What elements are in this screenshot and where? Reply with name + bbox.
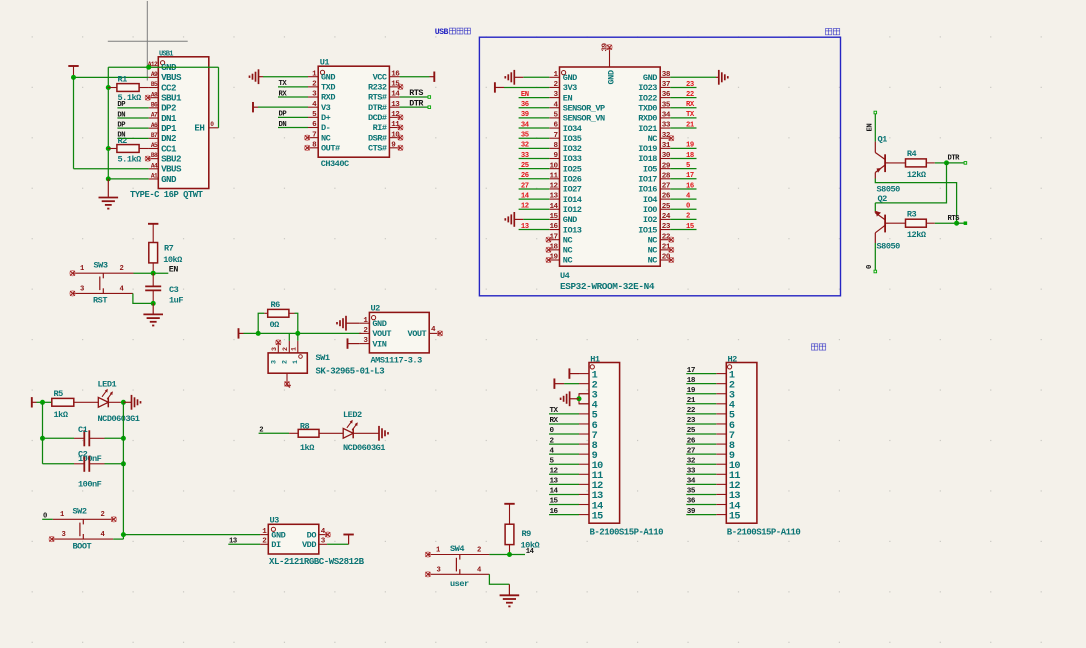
svg-text:22: 22 [687,407,696,415]
U4 pin 36 IO22 [638,91,671,103]
U4 pin 30 IO18 [638,152,671,164]
unconnected SW4 pin3 [425,572,430,577]
svg-text:DTR: DTR [948,155,961,163]
svg-text:23: 23 [662,223,671,231]
unconnected U1 pin8 [305,145,310,150]
svg-text:5.1kΩ: 5.1kΩ [118,154,142,164]
junction LED1 right [121,400,126,405]
svg-text:RST: RST [93,295,107,305]
svg-text:DP: DP [117,101,126,109]
junction R2 left [106,146,111,151]
wire GND left vertical [107,67,109,179]
svg-text:DTR#: DTR# [368,103,387,113]
svg-text:GND: GND [563,215,577,225]
svg-text:16: 16 [391,70,400,78]
resistor R5 1k [52,389,83,420]
wire VBUS-A9 [74,76,149,78]
wire/label 26 at H2 pin 8 [686,437,716,445]
svg-text:VIN: VIN [372,339,386,349]
junction C1 right [121,436,126,441]
wire/label 14 [510,548,535,556]
svg-text:USB1: USB1 [159,50,173,58]
unconnected SW2 pin2 [111,517,116,522]
svg-text:13: 13 [549,193,558,201]
svg-text:3: 3 [271,360,278,364]
wire DTR to Q2 emitter [875,163,946,203]
power 3V3 at U1 pin4 [253,102,308,112]
unconnected U1 pin 11 [398,125,403,130]
junction R6 right / SW1 pin1 [295,331,300,336]
H2 pin 13 [716,491,740,502]
svg-text:14: 14 [550,488,559,496]
resistor R3 [889,210,935,241]
U4 pin 15 GND [549,213,577,225]
cursor crosshair [108,1,188,81]
U4 pin 23 IO15 [638,223,671,235]
svg-text:31: 31 [662,142,671,150]
svg-text:GND: GND [321,72,335,82]
svg-text:DP: DP [117,121,126,129]
U4 pin 12 IO27 [549,183,581,195]
svg-text:15: 15 [592,511,604,522]
USB1 pin A8 SBU1 [149,91,182,103]
svg-text:DO: DO [307,530,317,540]
junction VBUS [71,75,76,80]
svg-text:22: 22 [686,91,694,99]
USB1 pin EH [194,121,218,134]
wire/label RX at U4 pin 35 [670,101,696,109]
svg-text:21: 21 [687,397,696,405]
U4 pin 39 GND top [601,42,616,84]
svg-text:RX: RX [550,417,559,425]
svg-text:26: 26 [687,437,696,445]
unconnected U1 pin 12 [398,115,403,120]
connector H2 body [726,354,757,523]
svg-text:GND: GND [271,530,285,540]
switch SW3 [73,261,134,306]
svg-text:IO15: IO15 [638,225,657,235]
svg-text:DSR#: DSR# [368,133,387,143]
svg-text:SENSOR_VP: SENSOR_VP [563,103,605,113]
svg-text:IO17: IO17 [638,175,657,185]
svg-text:SW1: SW1 [316,353,330,363]
resistor R4 [889,149,935,180]
ground symbol U4 pin38 [670,70,728,85]
svg-text:26: 26 [662,193,671,201]
svg-text:B5: B5 [151,81,158,88]
USB1 pin A1 GND [149,173,177,185]
U4 pin 10 IO25 [549,162,581,174]
U1 value CH340C [321,159,349,169]
svg-text:1kΩ: 1kΩ [300,443,314,453]
svg-text:H1: H1 [590,354,600,364]
wire/label DN [278,121,308,129]
svg-text:DP: DP [279,111,288,119]
svg-text:D-: D- [321,123,330,133]
svg-text:32: 32 [687,457,696,465]
svg-text:15: 15 [686,223,694,231]
svg-text:VDD: VDD [302,540,316,550]
wire/label DP row 6 [117,121,148,129]
svg-text:27: 27 [687,447,696,455]
wire/label TX [278,80,308,88]
U4 pin 3 EN [549,91,572,103]
svg-text:NCD0603G1: NCD0603G1 [343,443,385,453]
svg-text:DI: DI [271,540,281,550]
wire SW3 pin4 to C3 [133,293,153,303]
svg-text:CTS#: CTS# [368,144,387,154]
H1 pin 3 [579,391,598,402]
U3 pin4 DO [307,528,327,541]
wire/label 22 at H2 pin 5 [686,407,716,415]
svg-text:S8050: S8050 [877,242,901,252]
svg-text:SENSOR_VN: SENSOR_VN [563,114,605,124]
H2 pin 11 [716,471,740,482]
wire/label 13 at U4 pin 16 [519,223,550,231]
wire GND right vertical to EH [218,67,220,128]
svg-text:34: 34 [687,478,696,486]
svg-text:EH: EH [194,123,204,134]
unconnected U4 pin 20 [669,257,674,262]
svg-text:RI#: RI# [373,123,387,133]
wire/label 36 at U4 pin 4 [519,101,550,109]
svg-text:0Ω: 0Ω [270,320,280,330]
svg-text:IO2: IO2 [643,215,657,225]
power bar LED1 rail [32,397,37,407]
wire/label 16 at U4 pin 27 [670,182,696,190]
svg-text:S8050: S8050 [877,185,901,195]
svg-text:DTR: DTR [409,98,424,108]
svg-text:VOUT: VOUT [408,329,427,339]
U1 pin 8 OUT# [308,141,340,153]
svg-text:34: 34 [521,121,530,129]
svg-text:27: 27 [662,183,671,191]
U4 pin 35 TXD0 [638,101,671,113]
power bar input [239,328,244,338]
svg-text:3: 3 [437,566,441,574]
U2 pin 4 VOUT right [408,326,440,339]
svg-text:19: 19 [686,142,694,150]
U4 pin 13 IO14 [549,193,581,205]
ground symbol USB1 [99,179,119,209]
connector USB1 body [158,50,209,188]
svg-text:IO4: IO4 [643,195,657,205]
wire/label 35 at U4 pin 7 [519,132,550,140]
wire GND top [108,66,218,68]
svg-text:10kΩ: 10kΩ [163,255,182,265]
wire/label 27 at H2 pin 9 [686,447,716,455]
U1 pin 16 VCC [373,70,401,82]
svg-text:GND: GND [372,319,386,329]
svg-text:12: 12 [549,183,558,191]
unconnected SW4 pin1 [425,552,430,557]
power VCC at U1 pin16 [400,72,435,82]
svg-text:SW3: SW3 [94,261,108,271]
svg-text:38: 38 [662,71,671,79]
ground symbol LED1 [123,395,140,410]
wire C2 to right rail [105,463,124,465]
svg-text:0: 0 [43,513,47,521]
svg-text:TXD0: TXD0 [638,103,657,113]
wire/label RX [278,90,308,98]
wire/label 5 at U4 pin 29 [670,162,696,170]
wire BOOT to U3 [123,534,260,536]
svg-text:A7: A7 [151,112,158,119]
H2 pin 10 [716,461,740,472]
svg-text:21: 21 [686,121,695,129]
wire/label 27 at U4 pin 12 [519,182,550,190]
svg-text:NC: NC [563,246,573,256]
H2 pin 14 [716,501,740,512]
H1 pin 15 [579,511,603,522]
wire/label 21 at H2 pin 4 [686,397,716,405]
svg-text:14: 14 [549,203,558,211]
H2 pin 5 [716,411,735,422]
U4 pin 2 3V3 [549,81,577,93]
wire/label 26 at U4 pin 11 [519,172,550,180]
junction BOOT net [121,532,126,537]
U4 pin 8 IO32 [549,142,581,154]
svg-text:13: 13 [550,478,559,486]
svg-text:2: 2 [101,511,105,519]
svg-text:U2: U2 [371,304,381,314]
svg-text:C1: C1 [78,425,88,435]
group box main-control [479,37,840,296]
H2 pin 15 [716,511,740,522]
U1 pin 10 DSR# [368,131,400,143]
capacitor C2 100nF [74,450,105,490]
transistor Q1 S8050 [875,135,900,195]
svg-text:14: 14 [391,91,400,99]
U4 pin 27 IO16 [638,183,671,195]
junction EN-R7 [151,271,156,276]
wire left rail vertical [42,402,44,464]
svg-text:H2: H2 [728,354,738,364]
svg-text:27: 27 [521,182,529,190]
ground symbol U1 pin1 [250,69,309,84]
svg-text:17: 17 [686,172,694,180]
H2 pin 1 [716,370,735,381]
wire/label 19 at U4 pin 31 [670,142,696,150]
svg-text:15: 15 [729,511,741,522]
svg-text:23: 23 [687,417,696,425]
U4 pin 5 SENSOR_VN [549,112,605,124]
IC U3 WS2812B body [268,516,364,568]
U4 pin 37 IO23 [638,81,671,93]
svg-text:37: 37 [662,81,671,89]
U4 pin 19 NC [549,254,572,266]
IC U1 CH340C body [318,57,389,157]
svg-text:25: 25 [662,203,671,211]
transistor Q2 S8050 [875,194,900,252]
wire/label 4 at H1 pin 9 [549,447,579,455]
wire/label 2 at H1 pin 8 [549,437,579,445]
text peripherals (chinese) [812,344,826,351]
unconnected SW2 pin3 [49,537,54,542]
USB1 pin B7 DN2 [149,132,176,144]
svg-text:0: 0 [686,203,690,211]
svg-text:RTS: RTS [948,215,961,223]
U2 pin 2 VOUT [359,327,391,339]
svg-text:U3: U3 [270,516,280,526]
svg-text:RXD: RXD [321,93,335,103]
svg-text:1: 1 [292,360,299,364]
svg-text:A1: A1 [151,173,158,180]
unconnected U4 pin 19 [546,257,551,262]
USB1 pin A12 GND [148,61,177,73]
wire/label 5 at H1 pin 10 [549,457,579,465]
wire/label 0 at H1 pin 7 [549,427,579,435]
wire/label DP row 4 [117,101,148,109]
svg-text:35: 35 [521,132,529,140]
svg-text:A4: A4 [151,162,158,169]
svg-text:16: 16 [550,508,559,516]
svg-text:B6: B6 [151,101,158,108]
switch SW1 SK-32965 [268,333,384,388]
USB1 pin A4 VBUS [149,162,182,174]
svg-text:A5: A5 [151,142,158,149]
U4 pin 38 GND [643,71,671,83]
svg-text:V3: V3 [321,103,331,113]
svg-text:IO22: IO22 [638,93,657,103]
USB1 pin B6 DP2 [149,101,176,113]
svg-text:A6: A6 [151,122,158,129]
wire/label 0 at SW2 [42,513,53,521]
svg-text:SW4: SW4 [450,544,464,554]
wire/label RTS out [400,88,431,98]
ground symbol SW4 [500,584,520,606]
svg-text:2: 2 [282,360,289,364]
switch SW2 BOOT [52,507,113,552]
H1 pin 1 [579,370,598,381]
svg-text:OUT#: OUT# [321,144,340,154]
wire/label RTS [948,215,967,225]
wire/label 36 at H2 pin 14 [686,498,716,506]
wire/label 34 at U4 pin 6 [519,121,550,129]
svg-text:36: 36 [687,498,696,506]
svg-text:SW2: SW2 [73,507,87,517]
U4 pin 24 IO2 [643,213,671,225]
svg-text:1uF: 1uF [169,296,183,306]
capacitor C3 1uF [145,273,183,305]
U1 pin 15 R232 [368,80,400,92]
power bar at H1 pin 1 [569,368,579,378]
unconnected SW3 pin3 [70,291,75,296]
svg-text:IO18: IO18 [638,154,657,164]
USB1 pin B8 SBU2 [149,152,181,164]
svg-text:33: 33 [662,122,671,130]
H2 pin 2 [716,380,735,391]
svg-text:100nF: 100nF [78,479,102,489]
U1 pin 3 RXD [308,91,335,103]
svg-text:RTS: RTS [409,88,423,98]
svg-text:R4: R4 [907,149,917,159]
U4 reference [560,271,570,281]
U1 pin 9 CTS# [368,141,400,153]
unconnected U4 pin 21 [669,247,674,252]
wire Q2 collector to IO0 [874,243,876,272]
junction R5 left [40,400,45,405]
wire/label 32 at U4 pin 8 [519,142,550,150]
U4 pin 33 IO21 [638,122,671,134]
svg-text:32: 32 [521,142,529,150]
wire/label DN row 7 [117,132,148,140]
ground symbol U4 pin1 [505,70,549,85]
capacitor C1 100nF [74,425,105,464]
svg-text:EN: EN [169,265,179,275]
svg-text:IO19: IO19 [638,144,657,154]
U4 pin 11 IO26 [549,172,581,184]
unconnected U4 pin32 [669,136,674,141]
svg-text:2: 2 [259,427,263,435]
unconnected U1 pin7 [305,135,310,140]
U4 pin 1 GND [549,71,577,83]
unconnected U1 pin 9 [398,145,403,150]
U3 pin2 DI [260,538,281,551]
junction H1 ground [577,396,582,401]
wire/label 14 at H1 pin 13 [549,488,579,496]
svg-text:GND: GND [643,73,657,83]
U3 pin3 VDD [302,538,327,551]
H1 pin 14 [579,501,603,512]
svg-text:R5: R5 [54,389,64,399]
wire/label 35 at H2 pin 13 [686,488,716,496]
svg-text:GND: GND [607,70,617,84]
svg-text:NCD0603G1: NCD0603G1 [98,414,140,424]
wire/label TX at H1 pin 5 [549,407,579,415]
wire/label EN at U4 pin 3 [519,91,550,99]
wire/label 32 at H2 pin 10 [686,457,716,465]
svg-text:RXD0: RXD0 [638,114,657,124]
svg-text:12: 12 [521,203,529,211]
svg-text:NC: NC [648,235,658,245]
U4 pin 25 IO0 [643,203,671,215]
svg-text:13: 13 [521,223,529,231]
ground symbol U4 pin15 [505,212,549,227]
wire/label 17 at U4 pin 28 [670,172,696,180]
ground symbol below C3 [143,303,163,325]
svg-text:IO0: IO0 [643,205,657,215]
junction R9 bottom [507,552,512,557]
wire C2 row [43,463,75,465]
svg-text:15: 15 [550,498,559,506]
svg-text:GND: GND [563,73,577,83]
svg-text:DN: DN [117,111,125,119]
svg-text:IO13: IO13 [563,225,582,235]
wire/label 39 at U4 pin 5 [519,111,550,119]
junction GND-A1 [106,176,111,181]
wire/label DTR out [400,98,431,108]
svg-text:13: 13 [229,538,237,546]
power VBUS bar [68,66,78,77]
U1 pin 1 GND [308,70,335,82]
U4 pin 20 NC [648,254,671,266]
svg-text:18: 18 [686,152,694,160]
svg-text:30: 30 [662,152,671,160]
svg-text:3: 3 [62,531,66,539]
U1 pin 12 DCD# [368,111,400,123]
resistor R6 0ohm [258,300,298,333]
svg-text:Q1: Q1 [878,135,888,145]
svg-text:TYPE-C 16P QTWT: TYPE-C 16P QTWT [130,190,204,200]
H1 pin 7 [579,431,598,442]
wire SW4 pin2 to R9 [489,554,509,556]
U4 pin 4 SENSOR_VP [549,101,605,113]
svg-text:TX: TX [550,407,559,415]
svg-text:IO32: IO32 [563,144,582,154]
svg-text:36: 36 [662,91,671,99]
svg-text:35: 35 [662,101,671,109]
